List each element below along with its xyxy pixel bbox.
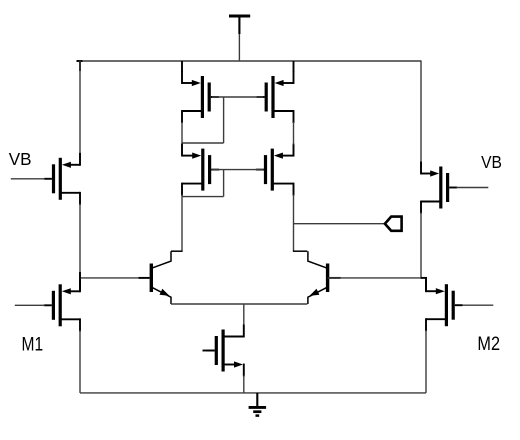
wire bottom rail — [80, 392, 426, 394]
wire jog to M2 source — [421, 277, 427, 279]
wire M2 gate lead — [462, 304, 493, 306]
svg-text:VB: VB — [481, 152, 502, 172]
wire Q1 base to left column — [80, 277, 138, 279]
wire VB-left gate lead — [11, 178, 45, 180]
wire emitter bus — [171, 303, 307, 305]
wire U3 drain diode connect horizontal — [182, 196, 224, 198]
node row2 gate junction drop — [223, 170, 225, 197]
wire U1 diode connect horizontal — [182, 142, 224, 144]
wire U2 source to top rail — [293, 61, 295, 72]
wire U1 source to top rail — [181, 61, 183, 72]
wire right rail down to VB transistor — [420, 60, 422, 168]
port OUT symbol — [385, 217, 402, 231]
node row1 gate junction drop — [223, 97, 225, 143]
wire M1 drain down to bottom rail — [79, 330, 81, 393]
wire tail node down — [243, 304, 245, 326]
label VB left — [9, 149, 32, 169]
wire M2 drain down to bottom rail — [425, 330, 427, 393]
wire VB-right drain down to M2 — [420, 213, 422, 279]
svg-text:M2: M2 — [477, 334, 500, 355]
wire U5 source to ground rail — [243, 376, 245, 393]
pmos VB-left bias device — [44, 153, 80, 205]
wire U1 drain node to U3 source — [181, 143, 183, 150]
wire output node to port — [294, 223, 385, 225]
wire jog down to M2 — [425, 277, 427, 291]
mosfet M1 left input device — [44, 279, 80, 331]
npn Q2 right of diff pair — [308, 251, 341, 304]
pmos U1 top-left of mirror — [182, 71, 219, 123]
pmos U4 mid-right cascode — [256, 144, 294, 196]
npn Q1 left of diff pair — [138, 251, 171, 304]
wire VB-left drain down to M1 — [79, 204, 81, 280]
wire U4 drain down to output node — [293, 195, 295, 252]
wire U5 gate stub — [203, 350, 215, 352]
wire U3 drain down to Q1 collector — [181, 195, 183, 252]
wire Q2 collector to output node — [293, 250, 307, 252]
wire row2 gate bus — [212, 169, 263, 171]
wire row1 gate bus — [212, 96, 263, 98]
mosfet M2 right input device — [426, 279, 463, 331]
svg-text:M1: M1 — [22, 334, 44, 355]
nmos U5 tail current source — [207, 325, 244, 377]
label M1 — [22, 334, 44, 355]
node M1 source / Q1 base junction — [79, 272, 81, 291]
wire top rail — [77, 60, 422, 62]
wire U1 drain down — [181, 122, 183, 143]
wire Q2 base to right column — [328, 277, 421, 279]
wire U2 drain to U4 source — [293, 122, 295, 145]
node top-left rail corner — [77, 60, 83, 71]
wire VB-right gate lead — [457, 187, 489, 189]
pmos U3 mid-left cascode — [182, 144, 219, 196]
label VB right — [481, 152, 502, 172]
pmos VB-right bias device — [421, 162, 457, 214]
svg-text:VB: VB — [9, 149, 32, 169]
power VDD symbol — [229, 16, 250, 34]
wire M1 gate lead — [15, 304, 45, 306]
pmos U2 top-right of mirror — [257, 71, 294, 123]
label M2 — [477, 334, 500, 355]
wire left rail down to VB transistor — [79, 60, 81, 160]
wire power stem to top rail — [238, 34, 240, 61]
ground symbol — [249, 393, 267, 416]
wire Q1 collector to left cascode — [171, 250, 183, 252]
